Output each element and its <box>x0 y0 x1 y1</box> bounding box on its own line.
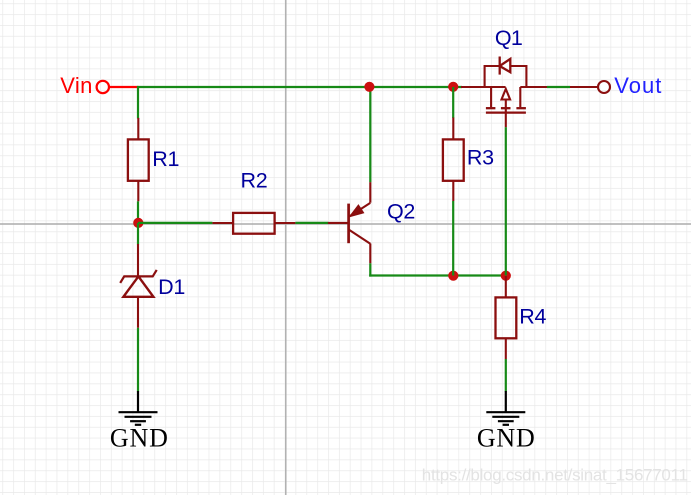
node junction dot top right <box>448 82 458 92</box>
wire top horizontal <box>137 86 462 88</box>
wire R1 bottom to node <box>137 201 139 223</box>
svg-text:R4: R4 <box>519 304 546 328</box>
wire R3 top vertical <box>452 87 454 118</box>
transistor Q1 (PMOS with body diode) <box>485 57 547 128</box>
wire R4 bottom to ground <box>505 359 507 392</box>
diode D1 zener <box>120 244 157 328</box>
resistor R3 <box>443 118 464 202</box>
ground GND1 <box>119 391 158 425</box>
wire R3 bottom vertical <box>452 201 454 276</box>
wire top to Q1 source <box>461 86 505 88</box>
node junction dot top left <box>364 82 374 92</box>
svg-text:Q1: Q1 <box>495 26 522 50</box>
resistor R4 <box>496 276 517 359</box>
svg-text:GND: GND <box>477 423 536 452</box>
node Vout terminal <box>570 81 610 93</box>
svg-text:R3: R3 <box>467 145 494 169</box>
node A junction dot <box>133 218 143 228</box>
major grid axis horizontal <box>0 223 691 225</box>
wire bottom horizontal <box>369 274 506 276</box>
wire node A to R2 <box>138 222 212 224</box>
wire Q2 emitter up <box>369 87 371 182</box>
wire R1 top vertical <box>137 86 139 119</box>
transistor Q2 (PNP) <box>328 182 370 263</box>
svg-text:D1: D1 <box>158 275 185 299</box>
wire Q2 collector down <box>369 263 371 276</box>
svg-text:GND: GND <box>110 423 169 452</box>
wire D1 to ground <box>137 328 139 392</box>
node junction dot bottom R3 <box>448 271 458 281</box>
resistor R1 <box>128 118 149 201</box>
ground GND2 <box>486 391 525 425</box>
svg-text:Vin: Vin <box>60 73 93 98</box>
svg-text:Q2: Q2 <box>387 200 415 224</box>
wire node A down to D1 <box>137 223 139 245</box>
wire Q1 gate down <box>505 127 507 275</box>
svg-text:Vout: Vout <box>614 73 662 98</box>
resistor R2 <box>212 213 295 234</box>
major grid axis vertical <box>285 0 287 495</box>
node Vin terminal <box>97 81 139 93</box>
node junction dot bottom R4 <box>501 271 511 281</box>
svg-text:https://blog.csdn.net/sinat_15: https://blog.csdn.net/sinat_15677011 <box>422 466 688 485</box>
wire R2 to Q2 base <box>295 222 328 224</box>
svg-text:R2: R2 <box>241 169 268 193</box>
svg-text:R1: R1 <box>152 147 179 171</box>
wire Q1 drain to Vout <box>547 86 570 88</box>
